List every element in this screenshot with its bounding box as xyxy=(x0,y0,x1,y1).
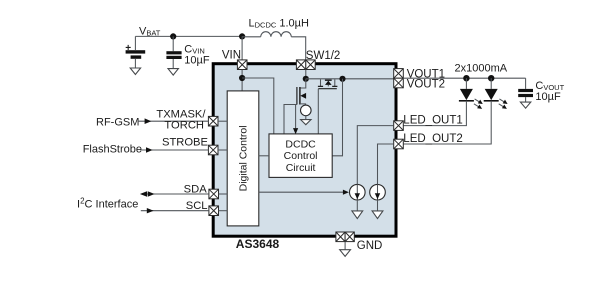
svg-text:DCDC: DCDC xyxy=(285,138,316,150)
wire SCL (arrow) xyxy=(141,208,209,213)
battery B1 xyxy=(125,36,145,68)
wire VIN node to DCDC xyxy=(242,78,274,134)
capacitor CVIN xyxy=(166,36,181,68)
LED D1 xyxy=(459,78,474,101)
svg-text:Circuit: Circuit xyxy=(286,162,316,174)
svg-text:LDCDC 1.0µH: LDCDC 1.0µH xyxy=(249,18,309,30)
svg-text:TORCH: TORCH xyxy=(164,120,204,132)
ground (sink I1) xyxy=(352,200,363,219)
label TXMASK/ xyxy=(156,108,206,120)
wire VBAT dot to VIN pin xyxy=(241,36,243,60)
svg-text:AS3648: AS3648 xyxy=(236,237,280,251)
wire VIN pin to digital control xyxy=(241,70,243,92)
label 2x1000mA xyxy=(455,62,508,74)
wire NMOS gate to DCDC xyxy=(284,105,297,135)
label Digital Control xyxy=(238,125,250,191)
label CVOUT 10uF xyxy=(535,80,564,103)
label DCDC Control Circuit xyxy=(284,138,318,173)
label LDCDC 1.0uH xyxy=(249,18,309,30)
svg-text:VIN: VIN xyxy=(222,50,241,62)
label VOUT1 xyxy=(407,68,445,80)
box DCDC Control Circuit xyxy=(269,134,332,178)
label STROBE xyxy=(162,136,208,148)
svg-text:10µF: 10µF xyxy=(184,55,210,67)
transistor Q1 NMOS switch xyxy=(297,79,306,106)
svg-text:VOUT2: VOUT2 xyxy=(407,79,445,91)
net VBAT label xyxy=(139,26,161,38)
wire LED D1 cathode to LED_OUT1 xyxy=(403,101,466,126)
wire VOUT feedback to DCDC xyxy=(332,79,342,156)
capacitor CVOUT xyxy=(518,89,533,102)
label RF-GSM xyxy=(96,116,139,128)
pin VOUT2 xyxy=(394,78,404,88)
svg-text:SW1/2: SW1/2 xyxy=(306,50,341,62)
label TORCH xyxy=(164,120,204,132)
wire LED_OUT2 pin to current sink 2 xyxy=(378,144,394,184)
wire STROBE pin to digital control xyxy=(218,149,227,151)
label SDA xyxy=(184,183,208,195)
svg-text:TXMASK/: TXMASK/ xyxy=(156,108,206,120)
label I2C Interface xyxy=(77,197,138,211)
svg-text:Control: Control xyxy=(284,150,318,162)
IC U1 AS3648 body xyxy=(213,64,396,237)
pin VIN xyxy=(237,60,247,70)
pin SDA xyxy=(209,189,219,199)
pin TXMASK/TORCH xyxy=(208,116,218,126)
LED D1 emission arrows xyxy=(474,99,483,109)
junction dot SW node xyxy=(303,76,309,82)
ground (current sense) xyxy=(301,115,311,124)
svg-text:RF-GSM: RF-GSM xyxy=(96,116,139,128)
label FlashStrobe xyxy=(83,144,142,156)
wire SCL pin to digital control xyxy=(219,210,228,212)
svg-text:CVIN: CVIN xyxy=(184,44,204,56)
ground (CVOUT) xyxy=(520,102,530,108)
current sink I2 xyxy=(370,184,386,200)
current sense element xyxy=(301,105,312,116)
wire SDA (bidirectional arrows) xyxy=(140,191,209,196)
wire SDA pin to digital control xyxy=(219,193,228,195)
label CVIN 10uF xyxy=(184,44,210,67)
label SCL xyxy=(186,200,208,212)
pin SW1/2 xyxy=(296,60,315,70)
wire current sense feedback to DCDC (arrow) xyxy=(293,105,298,135)
svg-text:SDA: SDA xyxy=(184,183,208,195)
pin SCL xyxy=(209,206,219,216)
wire SW pin to SW node xyxy=(305,70,307,79)
svg-text:CVOUT: CVOUT xyxy=(535,80,564,92)
label LED_OUT1 xyxy=(403,115,462,127)
ground (sink I2) xyxy=(372,200,383,219)
LED D2 xyxy=(484,78,499,101)
pin GND xyxy=(336,232,354,242)
ground (GND pin) xyxy=(340,250,351,257)
wire VBAT rail xyxy=(135,35,242,37)
wire SW rail to VOUT pins xyxy=(306,78,394,80)
wire LED_OUT1 pin to current sink 1 xyxy=(357,126,393,185)
svg-text:FlashStrobe: FlashStrobe xyxy=(83,144,142,156)
junction dot VIN node xyxy=(239,75,245,81)
svg-text:LED_OUT1: LED_OUT1 xyxy=(403,115,462,127)
wire Q2 gate to DCDC xyxy=(317,89,319,135)
label AS3648 xyxy=(236,237,280,251)
wire digital control to current sinks (arrow) xyxy=(259,190,349,195)
junction dot (VIN tap) xyxy=(239,33,245,39)
wire LED D2 cathode to LED_OUT2 xyxy=(403,101,491,144)
label VOUT2 xyxy=(407,79,445,91)
pin LED_OUT1 xyxy=(394,121,404,131)
wire GND pin to ground xyxy=(344,242,346,250)
wire FlashStrobe to STROBE pin (arrow) xyxy=(140,147,208,153)
wire digital control to DCDC xyxy=(259,155,269,157)
wire TXMASK pin to digital control xyxy=(218,120,227,122)
svg-text:STROBE: STROBE xyxy=(162,136,208,148)
svg-text:LED_OUT2: LED_OUT2 xyxy=(403,133,462,145)
wire VOUT rail to CVOUT xyxy=(525,78,527,89)
svg-text:GND: GND xyxy=(357,240,383,252)
wire VOUT rail xyxy=(403,77,525,79)
junction dot LED2 tap xyxy=(488,75,494,81)
ground (CVIN) xyxy=(168,69,178,76)
junction dot LED1 tap xyxy=(463,75,469,81)
junction dot (CVIN tap) xyxy=(170,33,176,39)
box Digital Control xyxy=(227,91,259,226)
current sink I1 xyxy=(350,184,366,200)
pin VOUT1 xyxy=(394,69,404,79)
label SW1/2 xyxy=(306,50,341,62)
svg-text:2x1000mA: 2x1000mA xyxy=(455,62,508,74)
LED D2 emission arrows xyxy=(499,99,508,109)
svg-text:I2C Interface: I2C Interface xyxy=(77,197,138,211)
body diode D3 xyxy=(325,80,332,86)
label GND xyxy=(357,240,383,252)
svg-text:10µF: 10µF xyxy=(535,91,561,103)
inductor LDCDC xyxy=(242,32,291,37)
wire RF-GSM to TXMASK pin (arrow) xyxy=(138,118,208,124)
wire inductor to SW1/2 xyxy=(291,37,305,60)
svg-text:VBAT: VBAT xyxy=(139,26,161,38)
junction dot VOUT feedback node xyxy=(339,76,345,82)
ground (battery) xyxy=(130,68,140,75)
pin STROBE xyxy=(208,145,218,155)
svg-text:Digital Control: Digital Control xyxy=(238,125,250,191)
svg-text:SCL: SCL xyxy=(186,200,208,212)
label VIN xyxy=(222,50,241,62)
label LED_OUT2 xyxy=(403,133,462,145)
pin LED_OUT2 xyxy=(394,139,404,149)
transistor Q2 sync rectifier xyxy=(318,79,338,88)
